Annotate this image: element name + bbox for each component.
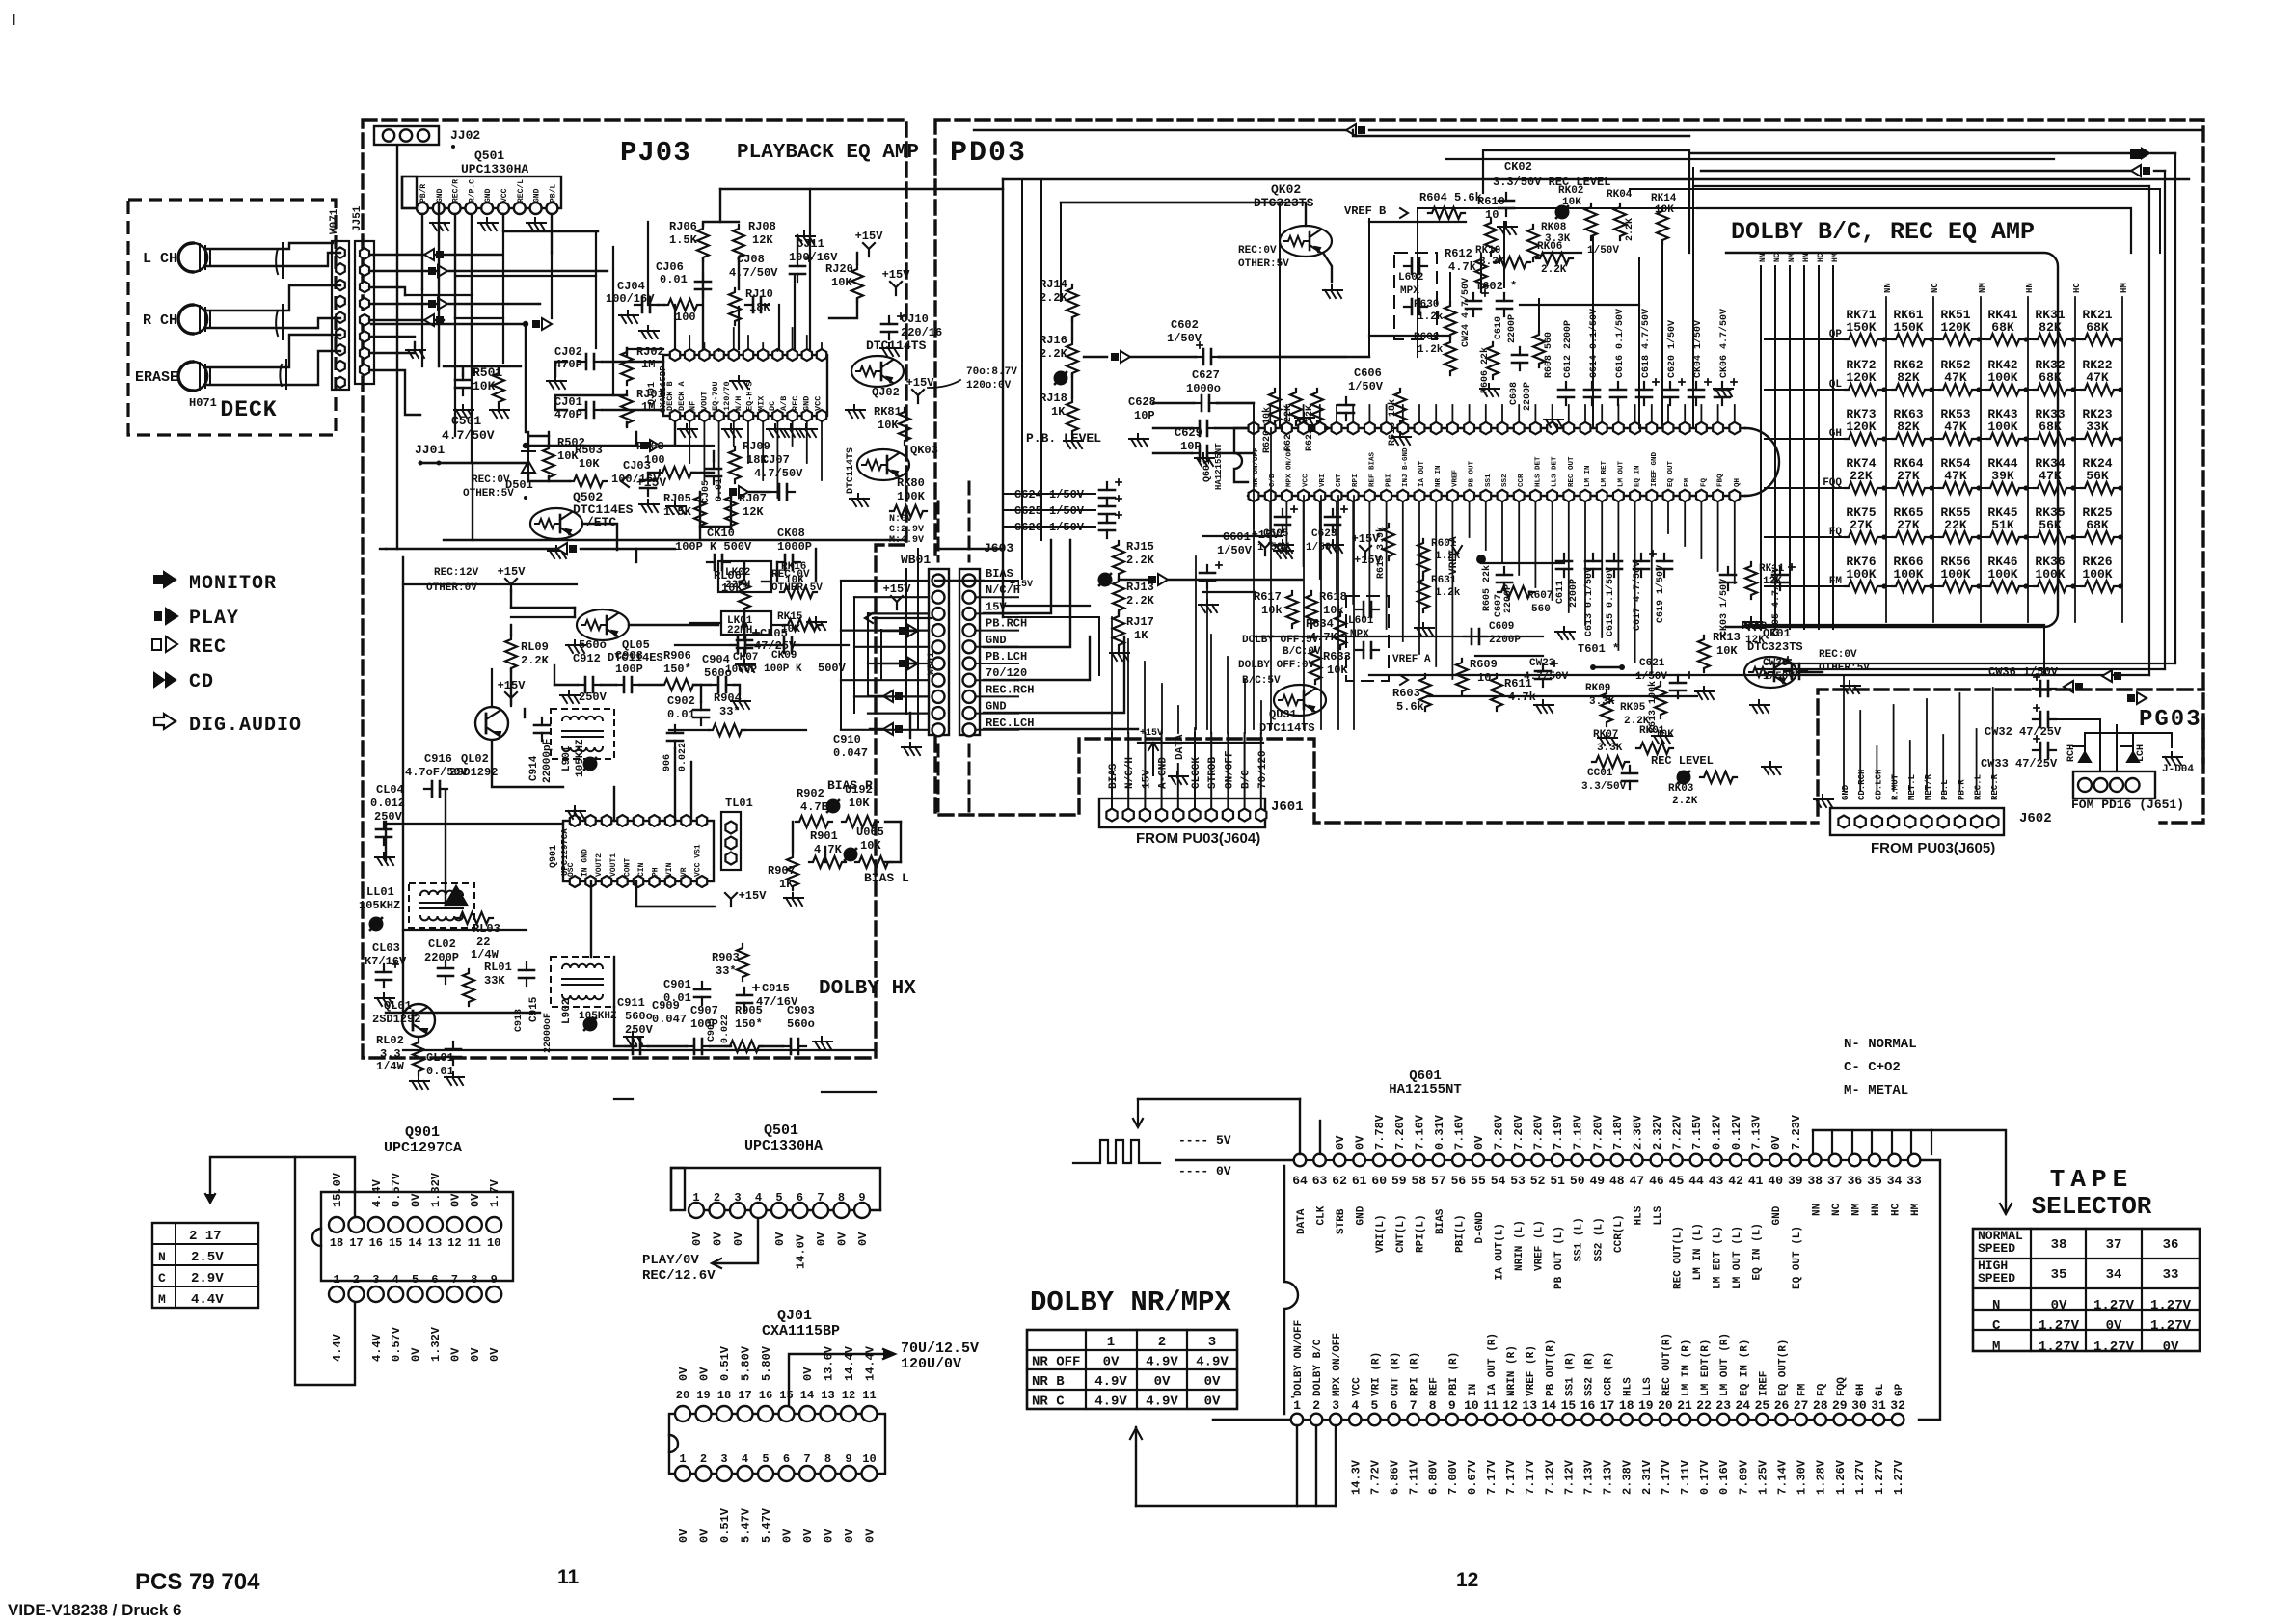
svg-text:Q501: Q501 (764, 1123, 798, 1139)
wire (691, 472, 714, 474)
wire (2043, 625, 2045, 675)
QJ01 top pin (714, 349, 723, 361)
svg-text:0.047: 0.047 (652, 1013, 687, 1026)
svg-text:100K: 100K (1940, 567, 1970, 582)
svg-text:36: 36 (1848, 1174, 1863, 1188)
svg-text:RK03: RK03 (1668, 783, 1694, 795)
svg-text:Q501: Q501 (474, 149, 504, 163)
svg-text:CW36 1/50V: CW36 1/50V (1988, 665, 2059, 679)
Q601 upper pin (1696, 422, 1707, 434)
power +15V arrow (891, 596, 903, 609)
wire (1296, 1425, 1298, 1506)
svg-text:4.9V: 4.9V (1094, 1374, 1127, 1390)
svg-text:M- METAL: M- METAL (1844, 1083, 1908, 1098)
wire (1021, 179, 1023, 579)
wire (733, 422, 735, 446)
svg-text:R901: R901 (810, 829, 838, 843)
wire (776, 562, 778, 582)
svg-text:4: 4 (755, 1191, 762, 1204)
wire (718, 422, 720, 498)
wire J602 feed (1992, 688, 1994, 791)
ground (1274, 546, 1293, 558)
svg-text:1.27V: 1.27V (2039, 1318, 2080, 1334)
svg-text:4.4V: 4.4V (370, 1333, 384, 1362)
wire (1061, 203, 1306, 226)
wire (1684, 405, 1686, 422)
W071 pin 8 (336, 361, 345, 371)
svg-text:7.12V: 7.12V (1562, 1459, 1576, 1495)
wire (420, 462, 526, 464)
wire (1671, 1419, 1679, 1421)
svg-text:4.7K: 4.7K (814, 843, 843, 856)
wire (1700, 405, 1702, 422)
resistor R612 4.7k (1475, 256, 1487, 292)
svg-text:13: 13 (428, 1236, 442, 1250)
Q601 upper pin (1663, 422, 1674, 434)
resistor R903 (737, 944, 748, 981)
svg-text:CJ10: CJ10 (901, 312, 929, 326)
wire matrix row (2019, 487, 2034, 489)
Q501 pinout pin 3 (730, 1203, 745, 1218)
resistor RK74 22K (1845, 482, 1881, 494)
Q601 pin 28 (1814, 1414, 1826, 1426)
svg-text:5: 5 (762, 1452, 769, 1466)
svg-text:DATA: DATA (1175, 734, 1186, 760)
resistor R610 10 (1485, 219, 1497, 256)
svg-text:FROM PU03(J605): FROM PU03(J605) (1871, 840, 1995, 856)
svg-text:DECK: DECK (220, 397, 277, 422)
ground (1324, 540, 1343, 553)
ground QJ01 (782, 424, 801, 437)
QJ01 top pin (758, 349, 768, 361)
svg-text:C: C (158, 1271, 166, 1286)
capacitor C618 4.7/50V (1643, 382, 1645, 405)
wire (1084, 356, 1107, 358)
svg-text:BIAS: BIAS (1435, 1208, 1446, 1234)
wire (674, 422, 676, 446)
head jack ERASE (178, 362, 207, 391)
Q601 lower pin (1364, 490, 1375, 501)
svg-text:70U/12.5V: 70U/12.5V (901, 1340, 979, 1357)
svg-text:470P: 470P (554, 358, 582, 371)
svg-text:1/4W: 1/4W (376, 1060, 405, 1073)
wire matrix row bus (1765, 585, 1845, 587)
svg-text:DTC114TS: DTC114TS (866, 338, 927, 353)
Q601 pin 61 (1353, 1154, 1365, 1167)
svg-text:39: 39 (1788, 1174, 1803, 1188)
resistor R604 5.6k (1428, 207, 1465, 219)
Q601 upper pin (1397, 422, 1408, 434)
connector J601 (1099, 798, 1265, 827)
connector J604 (2073, 771, 2155, 798)
svg-text:1.28V: 1.28V (1815, 1459, 1828, 1495)
svg-text:0V: 0V (2106, 1318, 2122, 1334)
svg-text:RJ08: RJ08 (748, 220, 776, 233)
svg-text:7.14V: 7.14V (1776, 1459, 1790, 1495)
svg-text:RK80: RK80 (897, 476, 925, 490)
resistor RL09 2.2K (505, 636, 517, 672)
Q901 pin 14 (408, 1217, 423, 1232)
wire (1380, 1419, 1388, 1421)
svg-text:37: 37 (1827, 1174, 1843, 1188)
wire (1692, 168, 1694, 428)
Q601 upper pin (1298, 422, 1309, 434)
Q601 lower pin (1249, 490, 1259, 501)
ground (1274, 540, 1293, 553)
Q601 pin 3 (1330, 1414, 1342, 1426)
svg-text:2.2K: 2.2K (1672, 796, 1698, 807)
wire (420, 462, 439, 464)
svg-text:10P: 10P (1180, 440, 1202, 453)
svg-text:R.MUT: R.MUT (1891, 773, 1901, 800)
svg-text:0V: 0V (1769, 1135, 1783, 1150)
svg-text:11: 11 (468, 1236, 481, 1250)
svg-text:EQ OUT: EQ OUT (1667, 460, 1675, 487)
svg-text:1/50V: 1/50V (1167, 332, 1202, 345)
signal arrow (729, 488, 737, 496)
wire comb tooth (1891, 1130, 1893, 1154)
svg-text:0V: 0V (801, 1367, 815, 1381)
Q601 upper pin (1480, 422, 1491, 434)
J604 pin 4 (2126, 778, 2140, 792)
svg-text:100K: 100K (1987, 370, 2017, 385)
svg-text:43: 43 (1709, 1174, 1724, 1188)
svg-text:16: 16 (369, 1236, 383, 1250)
svg-text:SELECTOR: SELECTOR (2032, 1192, 2152, 1221)
ground (547, 376, 566, 389)
svg-text:CC01: CC01 (1587, 768, 1613, 779)
svg-text:1K: 1K (779, 878, 794, 891)
resistor RK26 100K (2081, 581, 2118, 592)
svg-text:3.3/50V: 3.3/50V (1581, 781, 1627, 793)
J601 pin 5 (1173, 809, 1183, 822)
svg-text:VR: VR (680, 867, 689, 877)
svg-text:RK08: RK08 (1541, 222, 1567, 233)
wire (792, 822, 794, 853)
wire (771, 624, 784, 626)
ground (784, 893, 803, 906)
wire (1060, 203, 1062, 301)
QJ01 pin 18 (716, 1406, 732, 1421)
wire (2164, 171, 2166, 669)
junction (1929, 436, 1933, 441)
capacitor CJ08 4.7/50V (745, 304, 769, 306)
capacitor CL01 (452, 1042, 454, 1065)
Q601 upper pin (1282, 422, 1292, 434)
svg-text:PH: PH (652, 867, 661, 877)
trimmer BIAS L (844, 848, 858, 862)
Q601 lower pin (1530, 490, 1541, 501)
svg-text:CD.LCH: CD.LCH (1874, 770, 1883, 800)
svg-text:4: 4 (1351, 1398, 1359, 1413)
wire (984, 728, 1138, 730)
svg-text:100P: 100P (690, 1017, 718, 1031)
Q601 pin 33 (1908, 1154, 1921, 1167)
svg-text:R612: R612 (1445, 247, 1472, 260)
wire (1613, 1419, 1621, 1421)
svg-text:IN GND: IN GND (581, 849, 590, 877)
svg-text:4.7oF/50V: 4.7oF/50V (405, 766, 469, 779)
svg-text:0V: 0V (410, 1193, 423, 1207)
junction (2118, 387, 2122, 392)
resistor RK64 27K (1892, 482, 1929, 494)
Q601 pin 29 (1834, 1414, 1847, 1426)
capacitor CJ07 (771, 491, 795, 493)
wire matrix row (1972, 438, 1986, 440)
svg-text:J602: J602 (2019, 811, 2052, 826)
capacitor C915 (743, 988, 745, 1011)
resistor RK56 100K (1939, 581, 1976, 592)
wire (1203, 591, 1256, 593)
Q601 pin 59 (1392, 1154, 1405, 1167)
wire (1755, 668, 2165, 670)
QJ01 top pin (699, 349, 709, 361)
svg-text:2.2K: 2.2K (1126, 594, 1155, 608)
svg-text:GH: GH (1855, 1384, 1867, 1396)
wire (207, 243, 333, 249)
svg-text:7.19V: 7.19V (1552, 1114, 1565, 1150)
svg-text:RJ14: RJ14 (1040, 278, 1067, 291)
wire matrix row (2019, 389, 2034, 391)
svg-text:NN: NN (1759, 253, 1768, 262)
svg-text:R618: R618 (1319, 590, 1347, 604)
J603 pin 6 (963, 658, 976, 670)
capacitor C903 (783, 1045, 806, 1047)
wire J601 feed (1260, 733, 1262, 808)
QJ01 pin 16 (758, 1406, 773, 1421)
IC Q501 pinout body (671, 1168, 880, 1210)
QJ01 pin 6 (779, 1466, 795, 1481)
wire (472, 463, 473, 540)
svg-text:EQ IN: EQ IN (1634, 465, 1642, 487)
wire J602 feed (1909, 741, 1911, 791)
wire (1161, 684, 1163, 733)
wire (1424, 1159, 1433, 1161)
svg-text:QK02: QK02 (1271, 182, 1301, 197)
svg-text:REC OUT: REC OUT (1568, 456, 1576, 487)
svg-text:250V: 250V (625, 1023, 654, 1037)
Q601 pin 22 (1698, 1414, 1711, 1426)
svg-text:39K: 39K (1991, 469, 2014, 483)
wire (909, 713, 911, 738)
capacitor CL02 (445, 961, 446, 984)
junction (2118, 534, 2122, 539)
wire (1552, 501, 1553, 600)
capacitor CJ02 470P (579, 361, 602, 363)
J601 pin 6 (1189, 809, 1200, 822)
capacitor C904 (711, 684, 734, 686)
svg-text:OTHER:5V: OTHER:5V (463, 488, 514, 500)
svg-text:2.38V: 2.38V (1621, 1459, 1634, 1495)
J604 pin 1 (2078, 778, 2092, 792)
Q601 pin 44 (1690, 1154, 1703, 1167)
wire (792, 422, 794, 446)
junction (1881, 534, 1886, 539)
Q901 pin 9 (486, 1286, 501, 1302)
WB01 pin 8 (932, 690, 945, 703)
Q601 pin 48 (1611, 1154, 1624, 1167)
wire (444, 365, 521, 367)
resistor RJ05 1.5K (694, 493, 706, 529)
wire (840, 581, 842, 729)
wire (699, 527, 701, 540)
svg-text:RK14: RK14 (1651, 193, 1677, 204)
svg-text:0.16V: 0.16V (1717, 1459, 1731, 1495)
resistor R634 4.7K (1335, 612, 1346, 649)
svg-text:1000o: 1000o (1186, 382, 1221, 395)
svg-text:2.30V: 2.30V (1631, 1114, 1644, 1150)
wire (1480, 254, 1482, 289)
signal arrow (428, 267, 436, 275)
wire J602 feed (1926, 699, 1928, 791)
svg-text:+15V: +15V (1010, 580, 1033, 590)
Q901 pin 11 (467, 1217, 482, 1232)
wire matrix row (1877, 338, 1892, 340)
svg-text:7.13V: 7.13V (1602, 1459, 1615, 1495)
svg-text:100K: 100K (2035, 567, 2065, 582)
capacitor CW23 4.7/50V (1542, 663, 1544, 687)
svg-text:0.51V: 0.51V (718, 1507, 732, 1543)
wire (629, 348, 663, 350)
svg-text:CW24 4.7/50V: CW24 4.7/50V (1460, 278, 1472, 347)
wire (1219, 356, 1369, 358)
wire (525, 324, 527, 432)
wire matrix row (1925, 536, 1939, 538)
Q601 upper pin (1249, 422, 1259, 434)
svg-text:150K: 150K (1893, 320, 1923, 335)
inductor LK01 22MH (721, 611, 771, 635)
svg-text:HC: HC (1817, 253, 1825, 262)
junction (1976, 485, 1981, 490)
svg-text:C608: C608 (1509, 382, 1520, 405)
capacitor C627 (1194, 402, 1217, 404)
wire (1846, 1419, 1853, 1421)
Q601 pin 55 (1472, 1154, 1485, 1167)
wire (917, 549, 919, 729)
svg-text:PCS 79 704: PCS 79 704 (135, 1569, 260, 1595)
wire (868, 712, 929, 714)
wire J601 feed (1177, 764, 1179, 808)
svg-text:1.27V: 1.27V (2150, 1298, 2192, 1313)
svg-text:0V: 0V (2051, 1298, 2067, 1313)
resistor RK24 56K (2081, 482, 2118, 494)
svg-text:PB/L: PB/L (549, 184, 557, 203)
svg-text:0V: 0V (732, 1232, 745, 1246)
svg-text:CNT (R): CNT (R) (1391, 1352, 1402, 1396)
svg-text:70/120: 70/120 (1257, 750, 1269, 789)
QJ01 top pin (670, 349, 680, 361)
svg-text:CNT: CNT (1336, 474, 1343, 487)
svg-text:100K: 100K (1893, 567, 1923, 582)
wire (613, 957, 615, 1007)
svg-text:VIN: VIN (665, 862, 674, 877)
svg-text:2.2K: 2.2K (1040, 291, 1068, 305)
svg-text:4.9V: 4.9V (1146, 1355, 1178, 1370)
wire (1788, 1419, 1796, 1421)
svg-text:100K: 100K (1987, 567, 2017, 582)
svg-text:FM: FM (1797, 1383, 1809, 1396)
J601 pin 3 (1140, 809, 1150, 822)
wire (2174, 153, 2176, 663)
svg-text:22: 22 (476, 935, 490, 949)
capacitor C620 1/50V (1669, 382, 1671, 405)
svg-text:10K: 10K (473, 379, 496, 393)
wire (762, 422, 764, 480)
wire (905, 569, 907, 714)
svg-text:7.17V: 7.17V (1524, 1459, 1537, 1495)
wire (976, 663, 1018, 664)
Q601 lower pin (1332, 490, 1342, 501)
svg-text:NRIN (L): NRIN (L) (1514, 1220, 1526, 1271)
svg-text:12: 12 (1502, 1398, 1518, 1413)
svg-text:VOUT2: VOUT2 (595, 853, 604, 877)
svg-text:FROM PU03(J604): FROM PU03(J604) (1136, 830, 1260, 847)
Q901 pin 15 (388, 1217, 403, 1232)
svg-text:0V: 0V (1204, 1394, 1221, 1410)
svg-text:2: 2 (700, 1452, 707, 1466)
wire matrix row (1925, 389, 1939, 391)
svg-text:CK04 1/50V: CK04 1/50V (1692, 320, 1704, 378)
svg-text:RJ02: RJ02 (636, 345, 664, 359)
svg-text:REC.RCH: REC.RCH (986, 683, 1034, 696)
capacitor CK06 4.7/50V (1721, 382, 1723, 405)
wire (1584, 501, 1586, 625)
Q601 upper pin (1431, 422, 1442, 434)
svg-text:0V: 0V (1103, 1355, 1120, 1370)
svg-text:30: 30 (1851, 1398, 1867, 1413)
svg-text:0V: 0V (1154, 1374, 1171, 1390)
svg-text:56: 56 (1451, 1174, 1467, 1188)
capacitor C609 2200P (1464, 636, 1487, 637)
wire (601, 684, 616, 686)
svg-text:RJ18: RJ18 (1040, 392, 1067, 405)
wire (648, 472, 659, 474)
wire (713, 451, 715, 461)
wire (207, 351, 340, 385)
svg-text:7.20V: 7.20V (1591, 1114, 1605, 1150)
wire (702, 258, 704, 349)
J602 pin 7 (1938, 816, 1949, 828)
arrowhead (1130, 1428, 1142, 1439)
wire (502, 231, 504, 363)
wire (718, 349, 720, 351)
svg-text:REC.L: REC.L (1974, 774, 1984, 800)
wire (1253, 403, 1255, 729)
svg-text:7.13V: 7.13V (1750, 1114, 1764, 1150)
Q601 lower pin (1415, 490, 1425, 501)
wire (207, 253, 340, 266)
svg-text:47: 47 (1630, 1174, 1645, 1188)
svg-text:150*: 150* (735, 1017, 763, 1031)
Q601 lower pin (1713, 490, 1723, 501)
wire (1386, 405, 1388, 422)
svg-text:34: 34 (1887, 1174, 1903, 1188)
wire (690, 622, 721, 624)
resistor RK72 120K (1845, 384, 1881, 395)
svg-text:2.32V: 2.32V (1651, 1114, 1664, 1150)
QJ01 bottom pin (772, 410, 782, 421)
svg-text:R609: R609 (1470, 658, 1498, 671)
svg-text:8: 8 (824, 1452, 831, 1466)
ground (730, 376, 749, 389)
arrow down to waveform (1133, 1099, 1143, 1127)
svg-text:CL05: CL05 (760, 627, 788, 640)
wire (555, 362, 567, 376)
resistor RJ18 1K (1067, 398, 1078, 435)
svg-text:2: 2 (353, 1273, 360, 1286)
IC Q901 UPC1297CA body (563, 821, 714, 881)
wire (1504, 1159, 1513, 1161)
